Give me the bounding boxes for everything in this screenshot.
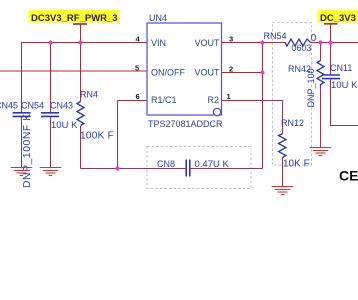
wire CN45 bottom <box>21 117 23 168</box>
svg-text:0.47U K: 0.47U K <box>195 159 230 170</box>
svg-text:RN4: RN4 <box>80 90 98 100</box>
junction node (320.5,42.5) <box>318 40 322 44</box>
ground (CN54) <box>40 168 62 176</box>
svg-text:VOUT: VOUT <box>195 68 221 78</box>
svg-text:DNP_100: DNP_100 <box>306 68 316 107</box>
svg-text:CN45: CN45 <box>0 100 18 110</box>
junction node (117.5,168) <box>115 166 119 170</box>
svg-text:ON/OFF: ON/OFF <box>151 68 185 78</box>
power symbol DC3V3_RF_PWR_3 <box>29 10 120 24</box>
svg-text:3: 3 <box>229 35 233 44</box>
wire CN11 top <box>330 43 332 75</box>
resistor RN42 <box>288 61 324 108</box>
dashed DNP box around CN8 <box>147 147 251 189</box>
svg-text:VIN: VIN <box>151 38 166 48</box>
junction node (80,42.5) <box>78 40 82 44</box>
dashed DNP box right (around RN54/RN12) <box>273 23 312 166</box>
svg-text:RN12: RN12 <box>281 118 304 128</box>
capacitor CN8 <box>157 159 229 177</box>
wire CN54 bottom <box>50 117 52 168</box>
wire pin1 stub <box>222 100 263 102</box>
wire VOUT vertical x262 <box>262 43 264 169</box>
resistor RN12 <box>279 118 310 170</box>
svg-text:RN54: RN54 <box>264 31 287 41</box>
junction node (262,72.5) <box>260 70 264 74</box>
ground (RN12) <box>272 187 294 195</box>
capacitor CN11 <box>322 63 358 91</box>
svg-text:R2: R2 <box>208 95 220 105</box>
capacitor CN54 <box>21 100 59 116</box>
junction node (50,42.5) <box>48 40 52 44</box>
svg-text:5: 5 <box>135 64 139 73</box>
svg-text:CN54: CN54 <box>21 100 44 110</box>
svg-text:DC_3V3: DC_3V3 <box>320 13 356 24</box>
svg-text:0: 0 <box>311 33 317 44</box>
svg-text:6: 6 <box>136 92 140 101</box>
svg-text:10U K: 10U K <box>331 80 358 91</box>
svg-text:CN43: CN43 <box>50 100 73 110</box>
wire CN45 vertical top <box>21 42 23 112</box>
svg-text:UN4: UN4 <box>149 13 167 23</box>
svg-text:DC3V3_RF_PWR_3: DC3V3_RF_PWR_3 <box>31 13 118 24</box>
svg-text:10U K: 10U K <box>51 120 78 131</box>
svg-text:1: 1 <box>227 92 231 101</box>
wire RN4 bottom <box>80 126 82 169</box>
svg-text:TPS27081ADDCR: TPS27081ADDCR <box>148 119 223 129</box>
svg-text:0603: 0603 <box>292 43 312 53</box>
svg-text:VOUT: VOUT <box>195 38 221 48</box>
wire pin3 stub and RN54 left lead <box>222 42 286 44</box>
svg-text:CE: CE <box>339 168 358 184</box>
svg-text:CN11: CN11 <box>330 63 352 73</box>
wire ON/OFF bus y71 <box>0 70 147 72</box>
wire power stem DC_3V3 <box>330 24 332 43</box>
resistor RN4 <box>77 90 114 142</box>
ground (RN42) <box>310 148 332 156</box>
wire pin1 to RN12 <box>262 100 283 102</box>
svg-text:100K F: 100K F <box>80 131 114 142</box>
ground (CN45) <box>11 168 33 176</box>
wire CN11 bottom L <box>331 80 358 126</box>
capacitor CN45 <box>0 100 33 188</box>
junction node (330.5,42.5) <box>328 40 332 44</box>
svg-text:10K F: 10K F <box>283 159 310 170</box>
wire CN8 right to vertical <box>190 168 263 170</box>
wire CN54 vertical top <box>50 43 52 113</box>
wire pin6 stub <box>118 100 148 102</box>
wire power stem DC3V3_RF_PWR_3 <box>80 24 82 43</box>
op-amp U? : IC UN4 TPS27081ADDCR <box>147 13 223 129</box>
wire VIN bus y42.5 <box>22 42 148 44</box>
resistor RN54 <box>264 31 317 53</box>
wire pin2 stub <box>222 72 263 74</box>
wire RN4 top <box>80 43 82 102</box>
wire RN12 top vertical <box>282 101 284 134</box>
junction node (262,43) <box>260 40 264 44</box>
wire DC_3V3 rail y42.5 <box>311 42 358 44</box>
capacitor CN43 label and value <box>50 100 78 131</box>
svg-text:DNP_100NF K: DNP_100NF K <box>22 113 33 188</box>
svg-text:2: 2 <box>229 65 233 74</box>
wire pin6 vertical <box>117 101 119 169</box>
svg-text:CN8: CN8 <box>157 159 175 169</box>
wire node R1C1 horizontal y168 left <box>81 168 187 170</box>
power symbol DC_3V3 <box>318 10 358 24</box>
svg-text:R1/C1: R1/C1 <box>151 95 177 105</box>
wire RN42 top <box>320 43 322 61</box>
wire RN12 bottom <box>282 157 284 187</box>
wire RN42 bottom <box>320 88 322 148</box>
